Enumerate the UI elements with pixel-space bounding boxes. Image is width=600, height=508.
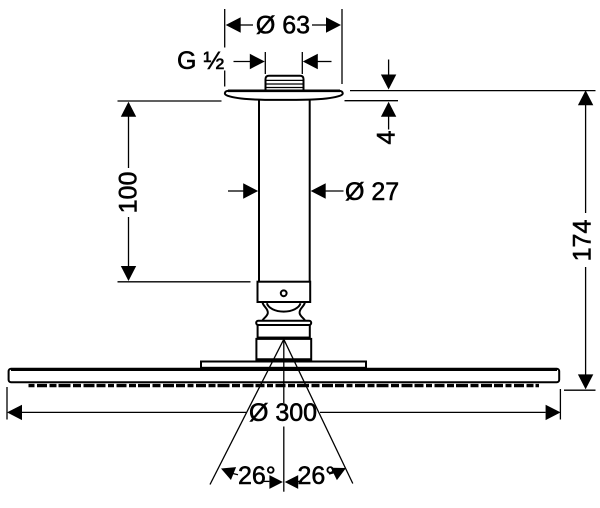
- svg-text:G ½: G ½: [177, 47, 224, 75]
- svg-text:4: 4: [373, 130, 401, 144]
- svg-text:Ø 27: Ø 27: [345, 178, 399, 206]
- svg-text:Ø 300: Ø 300: [249, 399, 317, 427]
- svg-text:174: 174: [568, 220, 596, 262]
- svg-text:100: 100: [114, 172, 142, 214]
- svg-text:Ø 63: Ø 63: [256, 12, 310, 40]
- svg-text:26°: 26°: [298, 462, 336, 490]
